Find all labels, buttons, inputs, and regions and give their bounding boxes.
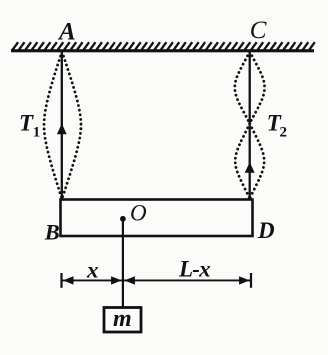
arrowhead center pointing right <box>111 276 122 284</box>
mass box <box>104 308 141 333</box>
ceiling hatching <box>13 42 315 50</box>
svg-text:L-x: L-x <box>178 257 210 282</box>
svg-text:m: m <box>113 306 132 332</box>
svg-text:O: O <box>130 201 147 226</box>
svg-text:B: B <box>44 220 60 245</box>
svg-text:x: x <box>86 258 99 283</box>
left tick <box>60 273 62 288</box>
dimension line (x / L-x) <box>62 279 252 281</box>
svg-text:1: 1 <box>33 125 41 141</box>
bar BD (rectangle) <box>61 200 253 237</box>
svg-text:C: C <box>250 17 267 44</box>
node O dot <box>120 216 126 222</box>
svg-text:A: A <box>57 19 76 46</box>
arrowhead center pointing left <box>124 276 134 284</box>
hanging wire from O to mass <box>122 219 124 308</box>
left string T1 line <box>61 52 63 200</box>
left arrowhead (T1 up) <box>57 124 67 135</box>
ceiling line <box>11 49 314 52</box>
label T1 <box>19 111 40 141</box>
label T2 <box>267 111 287 141</box>
right string standing-wave envelope (dotted, two loops) <box>235 52 265 199</box>
svg-text:T: T <box>19 111 34 136</box>
arrowhead left outward <box>63 276 74 284</box>
right tick <box>250 273 252 288</box>
left string standing-wave envelope (dotted, one loop) <box>44 52 81 200</box>
arrowhead right outward <box>239 276 250 284</box>
svg-text:D: D <box>257 218 275 243</box>
svg-text:2: 2 <box>280 125 288 141</box>
right string T2 line <box>249 52 251 200</box>
right arrowhead (T2 up) <box>245 162 255 173</box>
